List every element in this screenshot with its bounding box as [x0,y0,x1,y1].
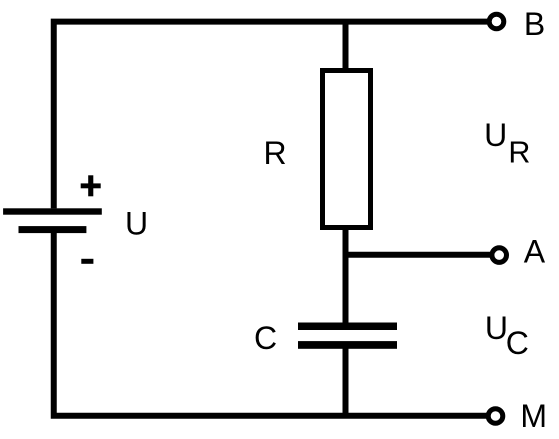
wire from capacitor bottom plate to bottom rail [343,348,349,417]
svg-text:U: U [485,310,508,346]
label UC (voltage across C) [485,310,529,361]
svg-text:U: U [125,205,148,241]
svg-text:A: A [524,233,546,269]
resistor R body [323,71,371,228]
terminal B [489,14,504,29]
battery U negative plate [19,226,87,233]
svg-text:U: U [484,117,507,153]
battery U positive plate [3,208,102,214]
wire bottom rail from battery - to terminal M [54,233,487,416]
svg-text:R: R [508,135,530,169]
capacitor C top plate [298,323,397,331]
svg-text:R: R [263,135,286,171]
svg-text:C: C [254,320,277,356]
terminal A [492,248,507,263]
node A wire (junction to terminal A) [346,252,491,258]
wire top rail from battery + to terminal B [54,22,488,209]
svg-text:M: M [520,398,547,434]
battery + polarity mark [81,175,101,196]
svg-text:C: C [506,325,529,361]
capacitor C bottom plate [298,341,397,349]
label UR (voltage across R) [484,117,530,169]
svg-text:B: B [524,6,545,42]
terminal M [488,409,503,424]
wire from top rail down to resistor R [343,20,349,70]
battery - polarity mark [81,259,93,264]
wire from resistor bottom to capacitor top plate [343,228,349,323]
